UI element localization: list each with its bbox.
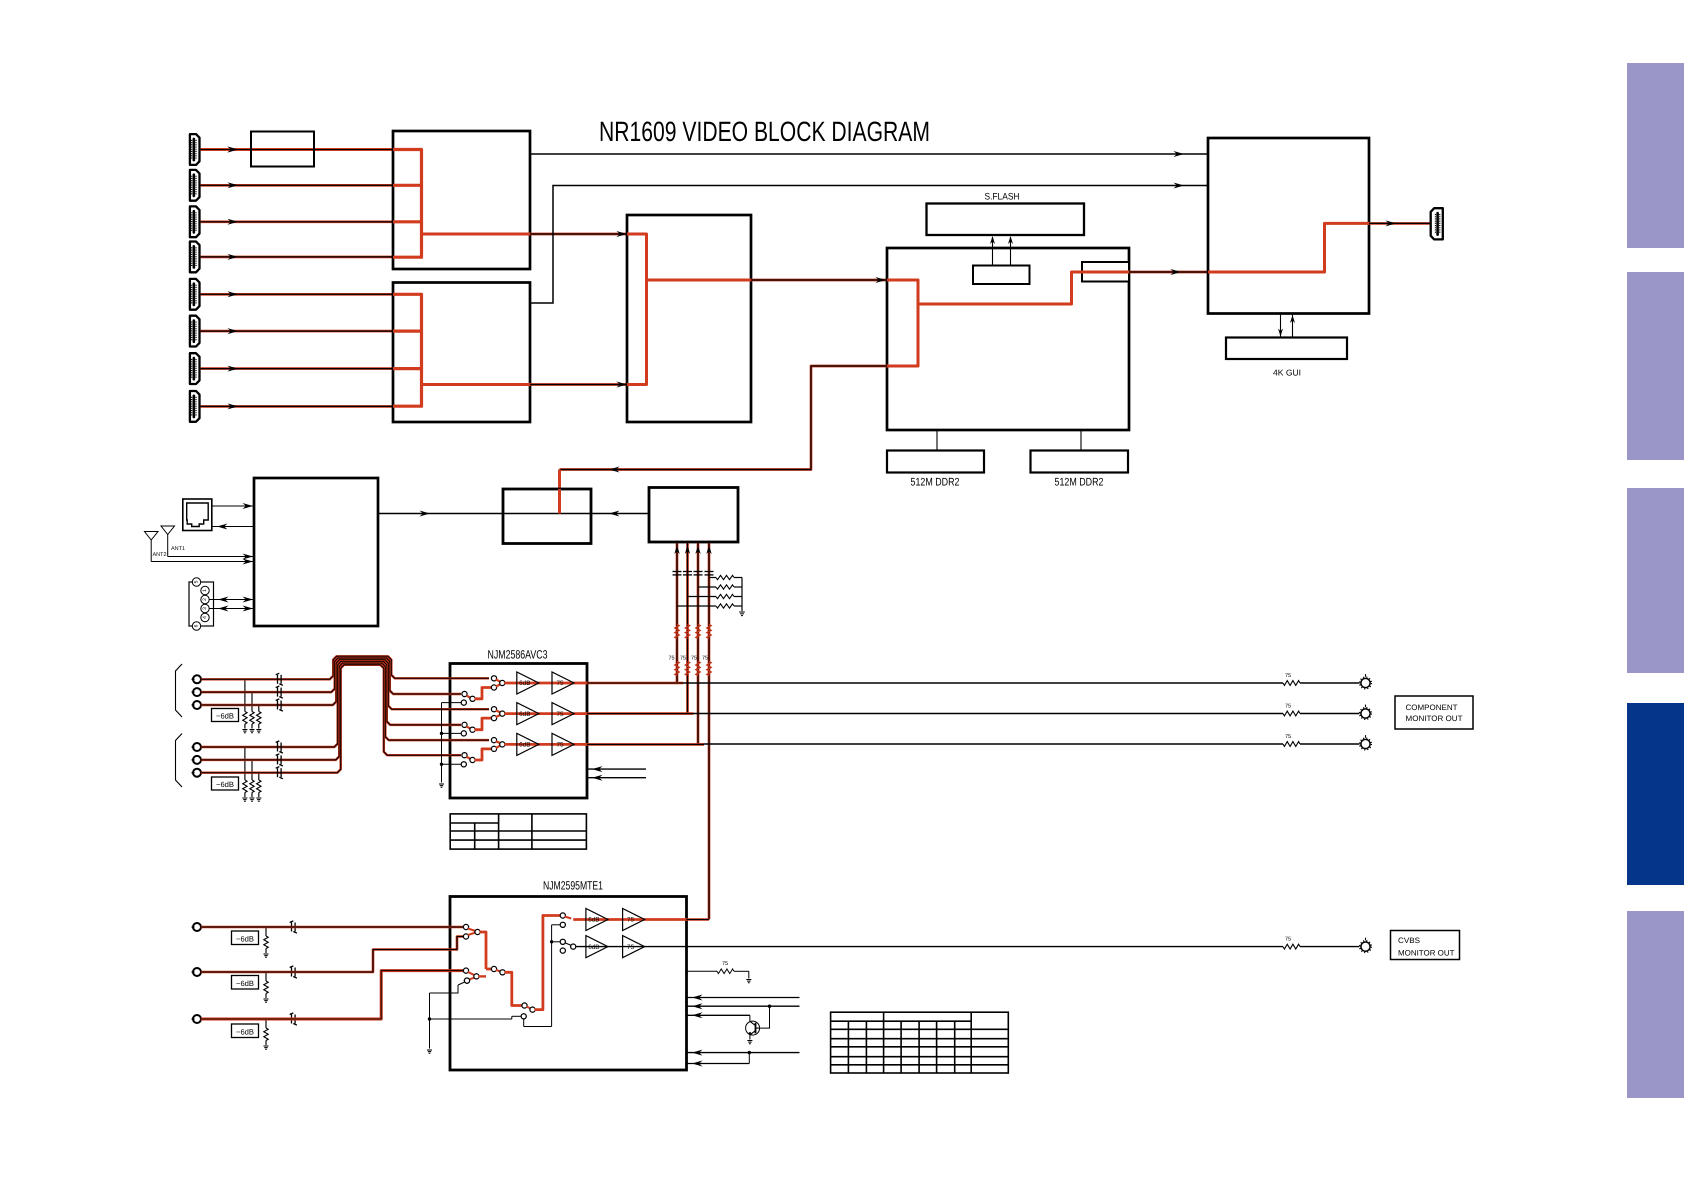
component output line 1 — [677, 682, 1283, 684]
75ohm resistor (red) on wire 3 lower — [696, 662, 700, 676]
75ohm resistor (red) on wire 1 upper — [675, 625, 679, 639]
amp channel 2 row — [505, 712, 588, 715]
input shunt resistor 1 — [244, 679, 246, 711]
svg-text:4: 4 — [202, 616, 208, 619]
svg-text:75: 75 — [1285, 734, 1291, 740]
svg-text:−6dB: −6dB — [216, 780, 234, 789]
component input terminal 4 — [193, 743, 201, 751]
wire DIN pin2 to tuner — [209, 599, 254, 601]
component input wire 6 (through level bump) — [201, 665, 461, 773]
component input terminal 3 — [193, 701, 201, 709]
svg-text:NJM2586AVC3: NJM2586AVC3 — [488, 648, 548, 662]
512M DDR2 memory #2 — [1031, 451, 1129, 473]
transistor Q1 — [746, 1021, 760, 1035]
svg-text:75: 75 — [1285, 937, 1291, 943]
svg-text:75: 75 — [1285, 673, 1291, 679]
-6dB label box cvbs 2 — [232, 976, 259, 990]
termination resistors to ground — [709, 577, 716, 579]
wire HDMI input 2 to switch — [201, 184, 393, 187]
svg-text:6: 6 — [194, 624, 200, 627]
capacitor on component input 6 — [276, 767, 283, 779]
amp channel 1 row — [505, 682, 588, 685]
wire HDMI1 bright segment — [201, 148, 393, 151]
svg-text:6dB: 6dB — [588, 944, 599, 951]
svg-text:75: 75 — [722, 961, 728, 967]
CVBS route staircase — [480, 932, 487, 969]
input shunt resistor 3 — [258, 705, 260, 712]
capacitor on CVBS input 2 — [290, 966, 297, 978]
wire flash ctrl to S.FLASH (2 arrows up) — [992, 237, 994, 266]
control lines NJM2595 inner — [551, 925, 553, 1027]
capacitor on component input 1 — [276, 673, 283, 685]
analog video wire 1 from encoder — [676, 543, 679, 683]
component input wire 5 (through level bump) — [201, 663, 489, 760]
transistor emitter to ground — [749, 1035, 751, 1040]
amp out 2 to output node — [587, 712, 694, 715]
CVBS MONITOR OUT label box — [1391, 931, 1460, 960]
input group bracket 2 — [176, 734, 183, 788]
75ohm resistor (red) on wire 3 upper — [696, 625, 700, 639]
COMPONENT MONITOR OUT label box — [1395, 696, 1473, 729]
CVBS input wire 3 — [201, 971, 464, 1019]
HDMI input connector CN4 — [190, 242, 200, 273]
amp channel 3 row — [505, 743, 588, 746]
amp channel 3 switch — [462, 753, 467, 758]
HDMI input connector CN8 — [190, 391, 200, 422]
output 75ohm resistor 3 — [1283, 742, 1300, 747]
HDMI switch block U2 — [393, 283, 530, 423]
red output U1 — [422, 233, 531, 236]
component input terminal 5 — [193, 756, 201, 764]
control bus to ground (NJM2586) — [441, 703, 443, 783]
wire HDMI input 5 to switch — [201, 293, 393, 296]
HDMI switch block U1 — [393, 131, 530, 269]
analog video wire 2 from encoder — [686, 543, 689, 714]
component RCA jack 2 — [1361, 709, 1370, 718]
CVBS amp row 2 — [573, 946, 686, 948]
svg-text:75: 75 — [556, 742, 564, 749]
svg-text:NR1609 VIDEO BLOCK DIAGRAM: NR1609 VIDEO BLOCK DIAGRAM — [599, 116, 930, 147]
svg-text:75: 75 — [680, 656, 686, 662]
aux input line y1019 — [450, 1018, 512, 1020]
CVBS output 75ohm resistor — [1283, 944, 1300, 949]
filter box on HDMI1 line — [251, 132, 314, 167]
capacitor on component input 3 — [276, 699, 283, 711]
input shunt resistor 4 — [244, 747, 246, 780]
amp out 1 to output node — [587, 682, 683, 685]
capacitor on wire 1 — [673, 572, 682, 575]
CVBS monitor output line — [687, 946, 1284, 948]
CVBS input wire 1 — [201, 926, 464, 929]
svg-text:75: 75 — [627, 917, 635, 924]
video repeater block U3 — [627, 215, 751, 422]
sidebar tab 4 (active) — [1627, 703, 1684, 885]
video amp NJM2586AVC3 U9 — [450, 664, 587, 799]
wire U3 to SoC — [751, 279, 887, 282]
control contact 3 — [461, 762, 466, 767]
-6dB label box 2 — [212, 777, 239, 790]
CVBS switch 2 — [463, 968, 468, 973]
amp out 3 to output node — [587, 743, 704, 746]
svg-text:512M DDR2: 512M DDR2 — [1055, 476, 1104, 488]
svg-text:75: 75 — [1285, 704, 1291, 710]
component input terminal 6 — [193, 769, 201, 777]
svg-text:NJM2595MTE1: NJM2595MTE1 — [543, 879, 603, 893]
wire SoC to HDMI TX (red) — [1129, 271, 1208, 274]
svg-text:75: 75 — [556, 680, 564, 687]
svg-text:6dB: 6dB — [519, 742, 530, 749]
component RCA jack 1 — [1361, 678, 1370, 687]
sync input arrows NJM2586 — [587, 768, 646, 770]
75ohm resistor (red) on wire 2 lower — [686, 662, 690, 676]
HDMI input connector CN2 — [190, 170, 200, 201]
HDMI input connector CN7 — [190, 353, 200, 384]
red bus inside U2 — [393, 294, 422, 406]
svg-text:6dB: 6dB — [519, 711, 530, 718]
capacitor on wire 2 — [683, 572, 692, 575]
analog video wire 3 from encoder — [697, 543, 700, 744]
sidebar tab 5 — [1627, 911, 1684, 1098]
antenna ANT1 — [161, 526, 175, 535]
75ohm resistor (red) on wire 4 lower — [707, 662, 711, 676]
-6dB label box cvbs 3 — [232, 1024, 259, 1038]
svg-text:512M DDR2: 512M DDR2 — [911, 476, 960, 488]
S.FLASH box — [927, 204, 1085, 236]
control contact to ground bus (NJM2595) — [464, 978, 469, 983]
wire U2 to HDMI TX — [530, 186, 1208, 304]
wire to transistor base — [768, 1005, 771, 1008]
svg-text:−6dB: −6dB — [216, 712, 234, 721]
svg-text:4K GUI: 4K GUI — [1273, 368, 1301, 378]
capacitor on wire 4 — [705, 572, 714, 575]
wire jack to tuner block — [212, 505, 254, 507]
control contact 1 — [461, 700, 466, 705]
capacitor on component input 2 — [276, 686, 283, 698]
wire U2 out to repeater — [530, 383, 627, 386]
512M DDR2 memory #1 — [887, 451, 984, 473]
CVBS input shunt resistor 1 — [265, 927, 267, 936]
bottom sync arrows NJM2595 — [687, 1052, 800, 1054]
component input wire 3 (through level bump) — [201, 660, 489, 710]
red drop into scaler block — [558, 470, 561, 514]
HDMI monitor out connector — [1431, 208, 1443, 239]
scaler block U7 — [503, 489, 591, 544]
red path inside SoC — [887, 280, 918, 366]
wire SoC to DDR2 #2 — [1080, 430, 1082, 451]
CVBS switch 1 — [463, 924, 468, 929]
analog video wire 4 from encoder — [708, 543, 711, 920]
svg-text:2: 2 — [202, 598, 208, 601]
75ohm resistor (red) on wire 1 lower — [675, 662, 679, 676]
amp channel 2 switch — [462, 722, 467, 727]
component output line 3 — [698, 743, 1283, 745]
wire U1 to HDMI TX (top) — [530, 153, 1208, 155]
wire HDMI input 1 to switch — [201, 148, 393, 151]
component RCA jack 3 — [1361, 739, 1370, 748]
svg-text:1: 1 — [202, 589, 208, 592]
sidebar tab 3 — [1627, 488, 1684, 673]
HDMI input connector CN3 — [190, 206, 200, 237]
wire U1 out to repeater — [530, 233, 627, 236]
sync input arrows NJM2595 — [687, 997, 800, 999]
svg-text:−6dB: −6dB — [236, 1027, 254, 1036]
network/tuner block U6 — [254, 478, 378, 626]
wire HDMI input 4 to switch — [201, 256, 393, 259]
antenna ANT2 — [145, 532, 159, 541]
svg-text:75: 75 — [556, 711, 564, 718]
CVBS input shunt resistor 2 — [265, 972, 267, 981]
capacitor on component input 4 — [276, 741, 283, 753]
video encoder block U8 — [649, 488, 738, 543]
wire SoC to DDR2 #1 — [936, 430, 938, 451]
svg-text:75: 75 — [669, 656, 675, 662]
ethernet jack — [183, 499, 212, 531]
output 75ohm resistor 1 — [1283, 681, 1300, 686]
svg-text:6dB: 6dB — [588, 917, 599, 924]
CVBS route down-staircase — [486, 968, 492, 971]
75ohm resistor (red) on wire 4 upper — [707, 625, 711, 639]
svg-text:75: 75 — [691, 656, 697, 662]
wire HDMI input 6 to switch — [201, 330, 393, 333]
svg-text:CVBS: CVBS — [1398, 936, 1420, 945]
assign table (middle) — [450, 814, 586, 849]
svg-text:MONITOR OUT: MONITOR OUT — [1398, 948, 1455, 957]
wire DIN pin3 to tuner — [209, 608, 254, 610]
output 75ohm resistor 2 — [1283, 711, 1300, 716]
svg-text:3: 3 — [202, 607, 208, 610]
wire to transistor collector — [749, 1015, 751, 1021]
-6dB label box cvbs 1 — [232, 931, 259, 945]
SoC video processor U4 — [887, 248, 1129, 430]
component output line 2 — [688, 713, 1284, 715]
wire ANT2 to tuner — [151, 561, 254, 563]
wire HDMI TX to monitor out connector — [1369, 222, 1430, 225]
CVBS amp row 1 — [573, 918, 686, 921]
flash controller sub-box — [973, 266, 1030, 285]
CVBS amp1 output to encoder wire — [687, 918, 710, 921]
wire tuner block to jack — [212, 526, 254, 528]
red output U3 — [647, 279, 752, 282]
capacitor on component input 5 — [276, 754, 283, 766]
capacitor on CVBS input 3 — [290, 1013, 297, 1025]
red output U2 — [422, 383, 531, 386]
component input wire 1 (through level bump) — [201, 656, 489, 679]
wire HDMI input 3 to switch — [201, 220, 393, 223]
sidebar tab 1 — [1627, 63, 1684, 248]
arrow on HDMI1 wire — [228, 147, 239, 153]
sidebar tab 2 — [1627, 272, 1684, 460]
input group bracket 1 — [176, 664, 183, 717]
input shunt resistor 5 — [251, 760, 253, 780]
CVBS input terminal 3 — [193, 1015, 201, 1023]
capacitor on wire 3 — [694, 572, 703, 575]
wire tuner to scaler block — [378, 513, 649, 515]
capacitor on CVBS input 1 — [290, 921, 297, 933]
svg-text:−6dB: −6dB — [236, 934, 254, 943]
component input wire 4 (through level bump) — [201, 661, 461, 747]
75ohm resistor (red) on wire 2 upper — [686, 625, 690, 639]
wire HDMI TX to 4K GUI (2 arrows) — [1280, 314, 1282, 338]
svg-text:75: 75 — [627, 944, 635, 951]
svg-text:COMPONENT: COMPONENT — [1406, 703, 1458, 712]
svg-text:6dB: 6dB — [519, 680, 530, 687]
svg-text:S.FLASH: S.FLASH — [985, 192, 1020, 203]
HDMI input connector CN1 — [190, 134, 200, 165]
component input terminal 2 — [193, 688, 201, 696]
amp channel 1 switch — [462, 691, 467, 696]
component input terminal 1 — [193, 675, 201, 683]
red path inside HDMI TX — [1208, 223, 1369, 272]
CVBS input shunt resistor 3 — [265, 1019, 267, 1028]
wire HDMI input 8 to switch — [201, 405, 393, 408]
HDMI input connector CN6 — [190, 316, 200, 347]
video conversion table (bottom) — [831, 1012, 1009, 1073]
svg-text:ANT2: ANT2 — [153, 552, 167, 558]
wire ANT1 to tuner — [168, 556, 254, 558]
red bus inside U3 — [627, 234, 647, 385]
CVBS input terminal 2 — [193, 968, 201, 976]
HDMI TX block U5 — [1208, 138, 1369, 314]
CVBS input terminal 1 — [193, 923, 201, 931]
-6dB label box 1 — [212, 709, 239, 722]
svg-text:−6dB: −6dB — [236, 979, 254, 988]
component input wire 2 (through level bump) — [201, 658, 461, 694]
ground of termination ladder — [741, 578, 743, 612]
4K GUI box — [1226, 338, 1347, 360]
HDMI out sub-box in SoC — [1082, 262, 1129, 282]
input shunt resistor 2 — [251, 692, 253, 711]
svg-text:ANT1: ANT1 — [171, 546, 185, 552]
svg-text:75: 75 — [702, 656, 708, 662]
75ohm shunt at NJM2595 output — [687, 970, 718, 972]
control contact 2 — [461, 731, 466, 736]
wire HDMI input 7 to switch — [201, 367, 393, 370]
svg-text:MONITOR OUT: MONITOR OUT — [1406, 714, 1463, 723]
red bus inside U1 — [393, 150, 422, 258]
wire SoC video return path (dark red) — [560, 366, 888, 470]
input shunt resistor 6 — [258, 773, 260, 780]
svg-text:5: 5 — [194, 580, 200, 583]
DIN connector 6-pin — [189, 582, 214, 626]
CVBS input wire 2 — [201, 937, 464, 973]
HDMI input connector CN5 — [190, 279, 200, 310]
CVBS RCA jack — [1361, 942, 1370, 951]
video amp NJM2595MTE1 U10 — [450, 897, 687, 1071]
